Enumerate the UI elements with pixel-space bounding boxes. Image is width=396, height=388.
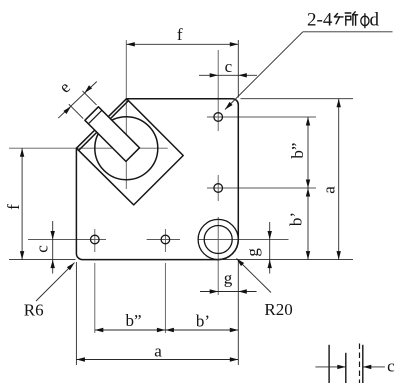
centerline vertical through boss circle bbox=[125, 40, 127, 189]
chamfer line inside diamond upper-left edge bbox=[79, 101, 129, 151]
centerline horizontal middle hole bbox=[207, 187, 316, 189]
extension line right edge down bbox=[237, 260, 239, 365]
extension line bottom edge left bbox=[9, 259, 76, 261]
plate outline bbox=[76, 99, 238, 260]
svg-text:R20: R20 bbox=[264, 300, 292, 319]
dimension line b1 right bbox=[307, 188, 309, 260]
svg-text:2-4: 2-4 bbox=[307, 9, 333, 30]
leader to top hole bbox=[225, 32, 303, 110]
centerline horizontal top hole bbox=[207, 116, 316, 118]
dimension line g bottom bbox=[200, 291, 257, 293]
extension line right edge up bbox=[237, 40, 239, 98]
svg-text:g: g bbox=[224, 269, 233, 288]
bottom-left hole bbox=[91, 235, 100, 244]
arrows c top bbox=[210, 73, 219, 77]
dimension line f top bbox=[126, 43, 238, 45]
top hole bbox=[214, 113, 223, 122]
centerline horizontal bottom-left hole bbox=[28, 239, 106, 241]
extension line bottom-mid hole to b dim bbox=[164, 263, 166, 333]
bottom-mid hole bbox=[161, 235, 170, 244]
svg-text:b’: b’ bbox=[287, 212, 306, 226]
extension line left edge down bbox=[75, 262, 77, 365]
side view left edge line bbox=[328, 345, 330, 383]
arrow R20 leader bbox=[237, 259, 245, 267]
svg-text:d: d bbox=[370, 9, 380, 30]
middle hole bbox=[214, 184, 223, 193]
side view dashed hole line bbox=[359, 344, 361, 384]
side view right edge line bbox=[362, 345, 364, 383]
arrows b1 bottom bbox=[165, 328, 174, 332]
dimension line c left bbox=[52, 221, 54, 274]
svg-text:R6: R6 bbox=[24, 300, 44, 319]
dimension line a bottom bbox=[76, 359, 238, 361]
centerline vertical bottom-mid hole bbox=[164, 229, 166, 252]
centerline vertical R20 boss bbox=[217, 217, 219, 295]
note glyph phi bbox=[361, 13, 369, 28]
svg-text:c: c bbox=[225, 57, 233, 76]
arrow leader top hole bbox=[225, 102, 233, 110]
note glyph small-ke bbox=[335, 14, 344, 24]
svg-text:f: f bbox=[4, 204, 23, 210]
arrows a bottom bbox=[76, 357, 85, 361]
leader R6 bbox=[36, 263, 75, 301]
slot end step line bbox=[88, 110, 102, 124]
arrows a right bbox=[337, 99, 341, 108]
centerline horizontal through boss circle bbox=[9, 147, 168, 149]
centerline vertical middle hole bbox=[217, 175, 219, 201]
dimension line g right bbox=[269, 222, 271, 274]
dimension line a right bbox=[338, 99, 340, 260]
arrows f top bbox=[126, 42, 135, 46]
svg-text:b”: b” bbox=[125, 311, 141, 330]
side view c arrows bbox=[337, 365, 346, 369]
boss circle bbox=[95, 117, 158, 180]
leader R20 bbox=[237, 259, 272, 293]
svg-text:f: f bbox=[177, 25, 183, 44]
dimension line b2 right bbox=[307, 117, 309, 188]
dimension line b2 b1 bottom bbox=[95, 329, 239, 331]
svg-text:c: c bbox=[387, 357, 395, 376]
arrows f left bbox=[20, 148, 24, 157]
arrows g bottom bbox=[210, 289, 219, 293]
centerline horizontal R20 boss bbox=[198, 239, 289, 241]
arrow R6 leader bbox=[67, 263, 75, 271]
svg-text:b’: b’ bbox=[196, 312, 210, 331]
dimension line c top bbox=[199, 74, 257, 76]
svg-text:c: c bbox=[32, 245, 51, 253]
arrows b2 right bbox=[306, 117, 310, 126]
extension line e upper bbox=[83, 91, 97, 105]
svg-text:a: a bbox=[320, 186, 339, 194]
R20 boss outer circle bbox=[198, 219, 238, 259]
side view inner edge line bbox=[345, 353, 347, 383]
arrows e bbox=[85, 85, 93, 93]
R20 boss inner hole bbox=[204, 226, 232, 254]
arrows c left bbox=[51, 231, 55, 240]
svg-text:g: g bbox=[243, 248, 262, 257]
arrows g right bbox=[268, 231, 272, 240]
dimension line e bbox=[58, 82, 97, 119]
key slot boss bbox=[85, 107, 140, 162]
diamond boss edges bbox=[76, 99, 183, 205]
extension line bottom-left hole to b dim bbox=[94, 263, 96, 333]
arrows b2 bottom bbox=[95, 328, 104, 332]
note glyph sho bbox=[345, 12, 357, 25]
svg-text:b”: b” bbox=[288, 143, 307, 159]
extension line bottom edge right bbox=[218, 259, 353, 261]
note underline bbox=[303, 31, 393, 33]
extension line top edge right bbox=[241, 98, 354, 100]
centerline vertical top hole bbox=[217, 50, 219, 131]
arrows b1 right bbox=[306, 188, 310, 197]
centerline horizontal bottom-mid hole bbox=[147, 239, 180, 241]
svg-text:a: a bbox=[154, 342, 162, 361]
extension line e lower bbox=[69, 104, 83, 118]
side view c dimension line bbox=[315, 366, 345, 368]
dimension line f left bbox=[21, 148, 23, 259]
centerline vertical bottom-left hole bbox=[94, 229, 96, 252]
